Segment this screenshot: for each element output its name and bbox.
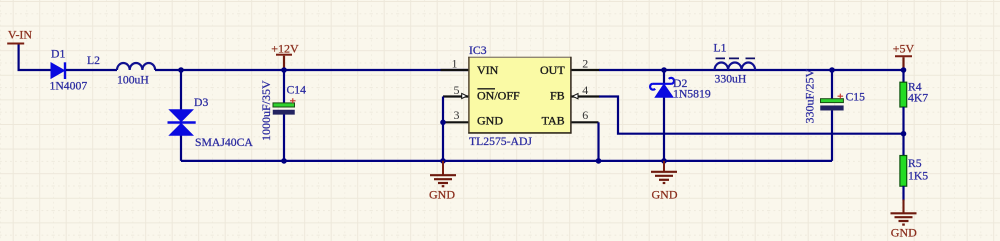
pin 5 ON/OFF <box>443 95 468 97</box>
power port V-IN <box>7 28 32 44</box>
node junction +5V / R4 <box>901 67 907 73</box>
svg-text:FB: FB <box>550 88 565 102</box>
svg-text:D3: D3 <box>194 96 208 109</box>
svg-text:GND: GND <box>429 187 455 201</box>
svg-text:+12V: +12V <box>271 42 299 56</box>
wire D2 vertical <box>663 70 665 161</box>
svg-text:TL2575-ADJ: TL2575-ADJ <box>469 135 532 148</box>
svg-text:330uH: 330uH <box>715 73 747 86</box>
svg-text:D1: D1 <box>51 48 65 61</box>
node junction pin3 <box>440 120 446 126</box>
resistor R5 <box>900 156 907 187</box>
svg-text:4: 4 <box>582 83 588 97</box>
pin 3 GND <box>441 121 469 123</box>
pin 2 OUT <box>572 69 600 71</box>
svg-text:C14: C14 <box>287 83 307 96</box>
ground symbol GND (D2) <box>651 161 678 201</box>
wire D3 vertical branch <box>180 70 182 161</box>
TVS diode D3 <box>168 109 196 136</box>
svg-text:R5: R5 <box>908 157 922 170</box>
svg-text:C15: C15 <box>846 90 866 103</box>
svg-text:1: 1 <box>452 57 458 71</box>
node junction C14 bottom <box>281 158 287 164</box>
wire R5 bottom <box>902 186 904 201</box>
svg-text:1N5819: 1N5819 <box>673 88 711 101</box>
node junction D2 bottom <box>661 158 667 164</box>
node junction ground bus at IC3 <box>440 158 446 164</box>
svg-text:V-IN: V-IN <box>8 28 33 42</box>
svg-text:L2: L2 <box>87 54 100 67</box>
inductor L1 <box>715 58 756 70</box>
wire pin5 to pin3 to ground bus <box>442 97 444 161</box>
svg-text:GND: GND <box>477 114 503 128</box>
wire C15 vertical <box>831 70 833 161</box>
diode D2 schottky <box>650 78 674 97</box>
resistor R4 <box>900 82 907 107</box>
node junction at D3 branch <box>178 67 184 73</box>
svg-text:L1: L1 <box>714 41 727 54</box>
svg-text:IC3: IC3 <box>469 44 487 57</box>
node junction C14 top <box>281 67 287 73</box>
svg-text:6: 6 <box>582 108 588 122</box>
capacitor C15 <box>821 94 844 111</box>
svg-text:GND: GND <box>891 225 917 239</box>
svg-text:3: 3 <box>454 108 460 122</box>
ground symbol GND (R5) <box>891 200 918 240</box>
wire C14 top <box>283 70 285 103</box>
svg-text:5: 5 <box>454 83 460 97</box>
inductor L2 <box>117 63 155 70</box>
svg-text:TAB: TAB <box>542 114 565 128</box>
wire L2 to IC3 pin1 <box>155 69 468 71</box>
svg-text:4K7: 4K7 <box>908 91 928 104</box>
wire R4 to R5 <box>902 107 904 156</box>
svg-text:ON/OFF: ON/OFF <box>477 88 520 102</box>
svg-text:GND: GND <box>652 187 678 201</box>
pin 6 TAB <box>572 121 599 123</box>
svg-text:+5V: +5V <box>893 42 915 56</box>
svg-text:SMAJ40CA: SMAJ40CA <box>195 136 253 149</box>
pin 4 FB <box>572 95 600 97</box>
diode D1 <box>51 62 65 79</box>
svg-text:330uF/25V: 330uF/25V <box>803 68 817 123</box>
svg-text:100uH: 100uH <box>117 74 149 87</box>
pin 1 VIN <box>441 69 469 71</box>
svg-text:2: 2 <box>582 57 588 71</box>
wire FB route <box>599 97 904 134</box>
wire R4 top <box>902 70 904 82</box>
ground bus wire (bottom) <box>181 160 832 162</box>
wire V-IN down and right to D1 <box>18 45 52 71</box>
node junction D2 top <box>661 67 667 73</box>
svg-text:1000uF/35V: 1000uF/35V <box>259 80 273 141</box>
capacitor C14 <box>273 98 296 114</box>
ground symbol GND (IC3) <box>429 161 456 201</box>
svg-text:OUT: OUT <box>540 63 565 77</box>
wire C14 bottom <box>283 114 285 160</box>
node junction TAB-ground bus <box>596 158 602 164</box>
wire OUT run to +5V <box>599 69 904 71</box>
node junction FB / R4 / R5 <box>901 131 907 137</box>
IC regulator IC3 body <box>468 57 571 134</box>
svg-text:1K5: 1K5 <box>908 170 928 183</box>
svg-text:VIN: VIN <box>477 63 499 77</box>
node junction C15 top <box>829 67 835 73</box>
power port +5V <box>893 42 915 70</box>
power port +12V <box>271 42 299 70</box>
wire D1 to L2 <box>66 69 117 71</box>
svg-text:1N4007: 1N4007 <box>50 80 88 93</box>
wire TAB drop <box>597 122 599 161</box>
